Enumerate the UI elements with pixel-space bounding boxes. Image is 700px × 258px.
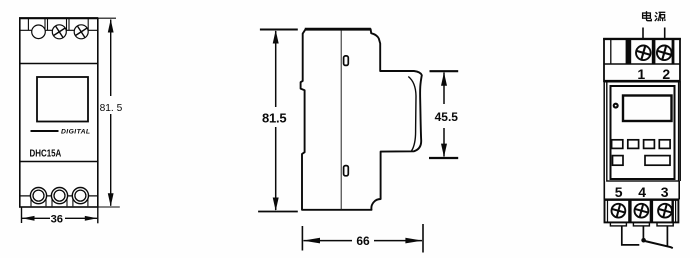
wiring view face plate <box>611 86 675 179</box>
side view 81.5 top extension bar <box>260 29 298 31</box>
front terminal shelf line <box>20 29 98 31</box>
svg-text:DIGITAL: DIGITAL <box>61 128 90 135</box>
front bottom terminal 2 <box>51 188 67 204</box>
dimension 45.5: top extension bar <box>430 70 459 72</box>
side view clip slot lower <box>344 166 349 176</box>
dimension 66: arrows <box>303 238 320 244</box>
wiring view top terminal block <box>604 39 680 82</box>
dimension 66: right extension line <box>422 224 424 253</box>
side view top edge thick <box>305 28 371 31</box>
terminal 3 screw <box>657 203 673 219</box>
dimension 81.5 side: arrows <box>273 30 279 43</box>
side view body outline <box>301 29 422 210</box>
front section line upper <box>20 63 98 65</box>
face lower buttons <box>613 156 671 166</box>
front top screw terminal X 1 <box>52 25 66 39</box>
svg-text:81. 5: 81. 5 <box>100 103 123 114</box>
dimension 66: line <box>304 240 423 242</box>
side view 81.5 bottom extension bar <box>258 211 298 213</box>
switch blade <box>645 241 673 248</box>
face button row <box>612 140 671 149</box>
wiring view lower number strip <box>604 181 679 199</box>
bottom terminal feet <box>610 222 673 226</box>
svg-text:36: 36 <box>51 213 63 225</box>
top block inner left line <box>610 40 612 64</box>
face LED <box>613 103 619 109</box>
front view top edge thick <box>19 17 98 19</box>
dimension 45.5: line <box>443 73 445 157</box>
bottom block inner lines <box>608 201 676 222</box>
top block top edge thick <box>603 38 681 40</box>
svg-text:3: 3 <box>661 184 669 200</box>
bottom block top edge thick <box>605 199 679 201</box>
front top screw terminal X 2 <box>74 25 88 39</box>
wiring view bottom terminal block <box>605 199 679 222</box>
wiring view face outer inset <box>607 81 679 181</box>
power lead 2 <box>664 28 666 39</box>
svg-text:45.5: 45.5 <box>435 110 459 124</box>
dimension 36: line <box>22 217 97 219</box>
side view clip slot upper <box>344 56 349 66</box>
dimension 36: left extension line <box>21 208 23 224</box>
top block divider bars <box>626 40 675 64</box>
face LCD <box>623 96 672 122</box>
extension line bottom right of front view <box>98 206 120 208</box>
front slot wall <box>28 18 88 30</box>
bottom block divider bars <box>628 200 674 221</box>
dimension 36: right extension line <box>97 208 99 224</box>
power lead 1 <box>642 28 644 39</box>
dimension 81.5 front: line <box>110 20 112 206</box>
extension line top right of front view <box>98 17 116 19</box>
svg-text:4: 4 <box>638 184 646 200</box>
side view clip bump inner contour <box>408 77 416 151</box>
top block number strip line <box>604 63 680 65</box>
wire from terminal 5 <box>622 226 640 245</box>
terminal 1 screw <box>635 44 652 61</box>
terminal 2 screw <box>656 44 673 61</box>
wire from terminal 3 <box>666 226 668 246</box>
svg-text:DHC15A: DHC15A <box>30 149 62 160</box>
svg-text:2: 2 <box>662 66 670 82</box>
dimension 45.5: bottom extension bar <box>429 157 458 159</box>
front pedestal walls <box>31 196 88 206</box>
front LCD window <box>37 77 88 122</box>
front section line lower <box>20 161 98 163</box>
front top screw terminal plain <box>32 25 46 39</box>
front bottom terminal 3 <box>72 188 88 204</box>
svg-text:66: 66 <box>356 234 370 248</box>
dimension 81.5 front: arrows <box>108 19 114 32</box>
svg-text:1: 1 <box>637 66 645 82</box>
front bottom terminal 1 <box>30 188 46 204</box>
wire from terminal 4 <box>642 226 644 238</box>
front view body DHC15A <box>20 18 98 207</box>
side view parting line <box>340 31 342 210</box>
wiring view outer side edges at face level <box>604 81 680 181</box>
front bottom shelf line <box>20 195 98 197</box>
svg-text:81.5: 81.5 <box>262 111 287 126</box>
top block bottom thick line <box>604 80 680 83</box>
label dianyuan (power) hand-drawn hanzi <box>643 11 666 21</box>
dimension 36: arrows <box>22 216 35 221</box>
dimension 66: left extension line <box>301 226 303 251</box>
DIGITAL logo line <box>31 130 59 132</box>
terminal 4 screw <box>633 203 649 219</box>
dimension 81.5 side: line <box>275 31 277 210</box>
terminal 5 screw <box>610 203 626 219</box>
svg-text:5: 5 <box>615 184 623 200</box>
switch common junction dot <box>641 238 646 243</box>
dimension 45.5: arrows <box>441 72 447 86</box>
